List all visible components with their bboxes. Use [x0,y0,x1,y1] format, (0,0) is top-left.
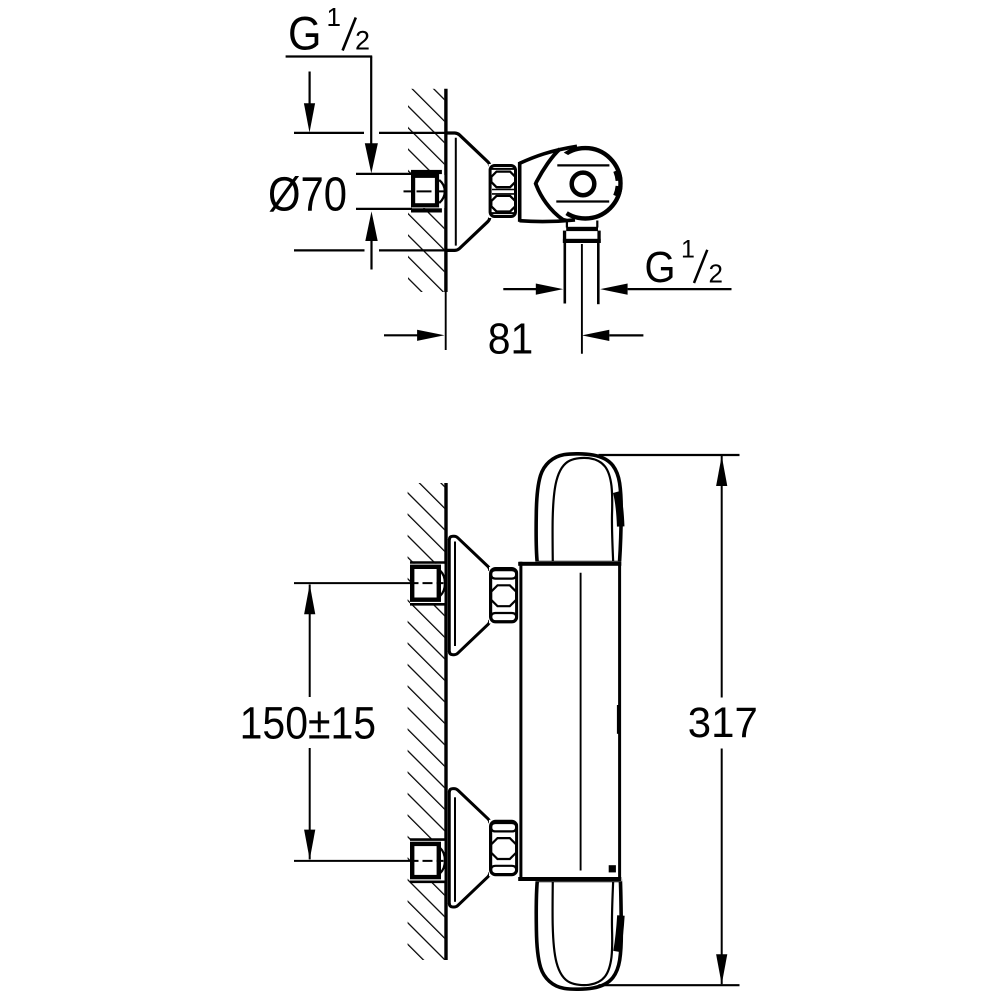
small mark at body bottom right [609,865,616,872]
150±15 dimension lines [294,582,412,584]
G1/2 label underline [286,55,373,57]
wall line (bottom view) [444,483,447,960]
hex coupling nut (top view) [489,164,517,218]
pipe centerline (dash-dot) [404,190,448,192]
lower face line [556,200,609,202]
svg-text:G: G [645,243,676,292]
hose centerline [581,244,583,354]
317 dimension [599,454,740,456]
cartridge shield (teardrop) white fill [536,150,572,220]
body left edge [518,162,522,222]
wall line (top view) [444,89,447,292]
extension line from escutcheon top [294,132,364,134]
svg-text:Ø70: Ø70 [268,168,347,221]
shower hose [563,243,566,304]
escutcheon inner line [455,138,457,246]
svg-text:317: 317 [688,699,758,747]
top knob (front view) [536,454,621,563]
outlet collar [563,231,566,243]
81 dimension [384,334,419,336]
pipe (behind wall) [356,175,444,208]
svg-text:81: 81 [488,314,534,363]
cartridge shield (teardrop) outline [536,149,567,221]
handle knob circle [550,148,620,218]
G 1/2 dimension arrows at hose [503,288,537,290]
body bottom contour [520,220,576,222]
bottom knob (front view) [536,881,621,990]
arrow down to pipe top [365,143,378,173]
leader line down from G1/2 [370,57,372,146]
center ring [572,173,595,196]
union nut on pipe (top view) [411,170,442,174]
lower inlet assembly (front view) [410,841,445,881]
upper hex nut (front view) [489,567,518,623]
lower escutcheon cone (front view) [448,790,490,907]
wall extension line down to 81 dim [445,292,447,350]
top knob grip mark [617,492,621,527]
small arrow down to escutcheon top line [309,72,311,106]
bottom knob grip mark [617,916,621,952]
right rim highlight arcs [617,171,620,181]
svg-text:150±15: 150±15 [240,698,377,749]
outlet upper black band [566,227,598,231]
svg-text:1: 1 [681,235,695,263]
lower hex nut (front view) [489,820,518,876]
valve body (front view) [518,562,622,882]
outlet neck [566,222,568,228]
upper inlet assembly (front view) [410,564,445,604]
wall hatching (top view) [408,89,444,292]
svg-text:1: 1 [327,2,341,32]
svg-text:2: 2 [709,259,723,289]
svg-text:2: 2 [355,26,370,56]
wall hatching (bottom view) [408,483,445,960]
svg-text:G: G [288,7,322,60]
label G 1/2 (bottom right) [645,235,723,292]
label G 1/2 (top left) [288,2,370,60]
extension line from escutcheon bottom [294,249,365,251]
valve body (top view) [520,146,606,221]
arrow up to pipe bottom [365,211,377,241]
body center line [580,573,582,871]
upper escutcheon cone (front view) [448,537,490,654]
upper face line [557,164,609,166]
escutcheon cone (top view) [448,134,490,249]
body top contour [520,146,578,163]
nut chamfer arc [439,180,445,203]
